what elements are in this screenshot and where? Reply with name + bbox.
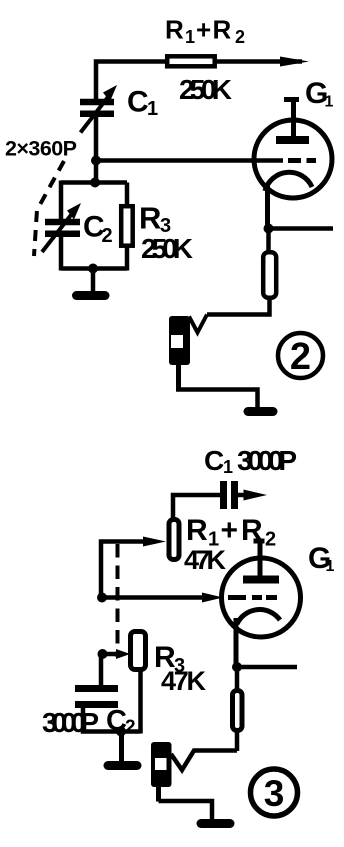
headphone plug (fig2) [169, 316, 190, 365]
resistor R3 (fig3 vertical box) [131, 632, 146, 670]
wire: left rail down to C2 [99, 654, 104, 686]
tube G1 anode lead [291, 99, 296, 137]
wire: cathode tap right (fig3) [237, 665, 297, 670]
label C1 [127, 86, 158, 121]
svg-text:C: C [204, 445, 224, 476]
resistor R1+R2 (horizontal box) [167, 56, 215, 66]
wire: tank right branch lower [125, 246, 130, 271]
label R3 [139, 201, 171, 238]
gang dashed line (fig3 pots) [116, 544, 120, 657]
svg-text:2: 2 [102, 225, 113, 247]
ground (fig3 left) [119, 732, 124, 763]
svg-text:2: 2 [235, 27, 245, 47]
svg-text:1: 1 [185, 27, 195, 47]
tube G1 grid dashes (fig3) [228, 595, 246, 600]
wire: to C1 [173, 495, 220, 519]
tube G1 cathode lead (fig3) [234, 618, 239, 667]
svg-text:+: + [196, 15, 211, 45]
tube G1 cathode arc [265, 172, 312, 191]
svg-text:R: R [165, 15, 184, 45]
wire: resistor to phones (fig3) [235, 728, 240, 751]
figure number 2 badge [278, 333, 323, 378]
svg-text:3000P: 3000P [237, 445, 297, 476]
wire: R3 bottom lead [138, 669, 143, 734]
svg-text:1: 1 [325, 94, 334, 111]
svg-text:250K: 250K [141, 233, 193, 264]
node: cathode junction dot (fig3) [232, 662, 242, 672]
capacitor C2 (variable, plates) [45, 219, 80, 226]
svg-text:R: R [139, 201, 161, 236]
tube G1 anode plate [276, 136, 309, 144]
svg-text:1: 1 [223, 457, 233, 477]
C1 arrow (variable) [81, 97, 109, 133]
resistor R1+R2 (fig3 vertical box) [169, 520, 179, 560]
wire: top horizontal plate supply wire [96, 62, 302, 101]
label R1+R2 (fig3) [186, 514, 276, 551]
svg-text:3: 3 [264, 773, 285, 814]
wiper arrow into R1+R2 [101, 542, 147, 600]
capacitor C1 (variable, plates) [80, 99, 114, 106]
wire: C2 bottom to ground rail [83, 706, 141, 732]
resistor (cathode bias, fig3) [233, 691, 243, 731]
svg-text:47K: 47K [161, 666, 207, 696]
node: grid junction dot [91, 156, 101, 166]
svg-text:1: 1 [326, 558, 335, 575]
label R3 (fig3) [154, 641, 185, 677]
svg-text:1: 1 [147, 98, 158, 120]
resistor (cathode bias, fig2) [263, 252, 276, 298]
svg-text:2: 2 [290, 336, 311, 378]
label G1 [305, 77, 334, 111]
node: tank junction dot [90, 178, 100, 188]
node: cathode junction dot [264, 224, 274, 234]
arrowhead on top wire [280, 57, 309, 67]
svg-text:2: 2 [265, 529, 276, 551]
capacitor C2 (fig3 plates) [75, 685, 118, 692]
wire: cathode down to resistor [266, 228, 271, 252]
svg-text:47K: 47K [184, 545, 227, 575]
wire: tank left branch upper [59, 181, 64, 220]
wire: tank right branch upper [125, 183, 130, 207]
wire: resistor to phones [207, 298, 270, 315]
ground (tank) [91, 269, 96, 292]
arrow out of C1 [238, 493, 250, 498]
ground (phones, fig3) [201, 819, 230, 828]
node: tank bottom dot [88, 264, 98, 274]
label C2 [83, 211, 113, 248]
wire: below C1 down to node [94, 116, 99, 183]
wire: tank top [61, 180, 127, 185]
C2 arrow (variable) [42, 215, 71, 252]
tube G1 anode plate (fig3) [243, 576, 279, 584]
wire: tank bottom [61, 266, 127, 271]
svg-text:2×360P: 2×360P [5, 137, 77, 161]
wiper arrow into R3 [103, 652, 119, 657]
node: R3 wiper junction dot [98, 649, 108, 659]
figure number 3 badge [251, 769, 298, 816]
wire: cathode tap to right [269, 226, 334, 231]
svg-text:2: 2 [125, 717, 136, 738]
wire: plug to ground [176, 365, 181, 390]
ground (phones, fig2) [248, 407, 273, 416]
label C1 3000P [204, 445, 297, 477]
svg-text:+: + [221, 514, 239, 547]
tube G1 cathode arc (fig3) [237, 610, 280, 624]
tube G1 grid dashes [288, 158, 301, 163]
wire: tank left branch lower [59, 237, 64, 271]
headphone plug (fig3) [151, 742, 172, 787]
tube G1 envelope (fig3) [222, 558, 301, 637]
label C2 (fig3) [106, 705, 136, 738]
wire: spring contact V [189, 315, 207, 333]
resistor R3 (vertical box) [121, 206, 133, 246]
label G1 (fig3) [308, 542, 335, 575]
svg-text:250K: 250K [179, 74, 232, 105]
tube G1 envelope [254, 120, 332, 198]
tube G1 cathode lead [265, 183, 270, 228]
label R1+R2 [165, 15, 245, 48]
wire: grid wire to tube [96, 158, 283, 163]
wire: plug to ground (fig3) [156, 787, 161, 802]
tube G1 anode lead (fig3) [258, 541, 263, 577]
wire: down to cathode resistor [235, 667, 240, 690]
gang dashed line (C1-C2 mechanical link) [34, 161, 64, 256]
node: grid junction dot (fig3) [97, 593, 107, 603]
svg-text:R: R [213, 15, 232, 45]
wire: grid wire with arrow to tube [102, 595, 205, 600]
node: ground junction dot [116, 727, 126, 737]
capacitor C1 (fig3 plates) [220, 481, 227, 509]
svg-text:C: C [127, 86, 149, 119]
svg-text:R: R [186, 514, 208, 547]
